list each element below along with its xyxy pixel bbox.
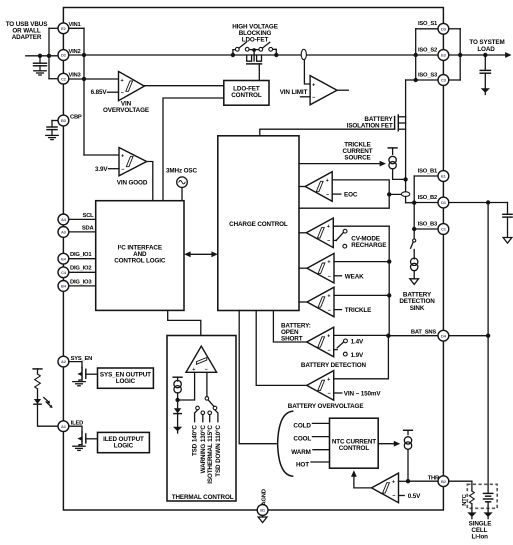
svg-text:LOGIC: LOGIC: [116, 378, 136, 385]
comparator WEAK: [307, 253, 334, 283]
block CHARGE CONTROL: [218, 136, 299, 311]
wire WEAK output: [299, 267, 307, 269]
svg-text:SOURCE: SOURCE: [344, 155, 370, 162]
wire battery overvoltage + input: [334, 336, 389, 379]
wire VIN1 stub: [69, 27, 84, 29]
svg-text:ILED: ILED: [71, 420, 83, 426]
pin ISO_B1: [438, 171, 449, 182]
wire charge control to trickle source: [299, 163, 384, 165]
capacitor input bypass: [39, 56, 41, 63]
pin AGND: [257, 505, 268, 516]
svg-text:NTC: NTC: [462, 493, 468, 505]
pin ISO_B2: [438, 197, 449, 208]
wire battery detection + input: [334, 334, 389, 336]
svg-text:ISO_B1: ISO_B1: [418, 168, 438, 174]
wire CV + input: [333, 225, 389, 227]
transistor ILED open-drain: [69, 426, 82, 432]
label 0.5V: [399, 495, 405, 497]
ground battery: [484, 512, 493, 517]
wire THR + input: [399, 480, 409, 482]
pin VIN1: [58, 23, 69, 34]
wire ISO_B bus: [413, 176, 415, 239]
wire isolation FET drain: [405, 80, 407, 203]
label TRICKLE: [334, 309, 342, 311]
LED indicator diode: [34, 399, 41, 404]
wire charge control to isolation FET gate: [260, 129, 395, 136]
wire VIN2 row left: [69, 54, 233, 56]
comparator NTC threshold 0.5V: [372, 473, 399, 503]
current source trickle: [388, 147, 397, 149]
transistor battery isolation FET: [394, 117, 396, 130]
block THERMAL CONTROL: [167, 336, 236, 502]
battery single cell: [484, 492, 493, 494]
junction EOC sense: [387, 192, 391, 196]
label WEAK: [334, 275, 342, 277]
wire VIN internal bus: [83, 28, 85, 155]
svg-text:THR: THR: [428, 475, 440, 481]
transistor SYS_EN open-drain: [69, 362, 82, 368]
svg-text:CONTROL LOGIC: CONTROL LOGIC: [114, 258, 166, 265]
wire BAT_SNS row: [388, 335, 438, 337]
junction VIN bus: [82, 53, 86, 57]
junction FET drain / trickle: [403, 177, 407, 181]
block SYS_EN OUTPUT LOGIC: [98, 368, 154, 388]
pin SDA: [69, 231, 96, 233]
svg-text:SCL: SCL: [83, 213, 95, 219]
wire ISO_S left bus: [415, 29, 417, 80]
svg-text:VIN2: VIN2: [69, 49, 81, 55]
svg-text:−: −: [328, 391, 331, 397]
block NTC CURRENT CONTROL: [330, 418, 379, 468]
wire VIN2 row right: [233, 54, 416, 56]
svg-text:−: −: [328, 274, 331, 280]
wire VIN GOOD output: [147, 162, 153, 201]
svg-text:VIN LIMIT: VIN LIMIT: [280, 89, 308, 96]
comparator CV-MODE RECHARGE: [306, 218, 333, 248]
svg-text:−: −: [392, 494, 395, 500]
wire LED to ILED pin: [38, 404, 59, 426]
svg-text:0.5V: 0.5V: [408, 493, 421, 500]
wire ISO_S1 stub left: [416, 28, 438, 30]
wire ISO_B2 stub: [414, 202, 438, 204]
wire 0.5V comparator to NTC control: [354, 473, 372, 488]
ground battery detection sink: [410, 279, 419, 285]
pin DIG_IO1: [69, 258, 96, 260]
wire EOC sense tap: [389, 193, 405, 195]
wire ISO_B2 to battery rail: [449, 202, 508, 204]
svg-text:1.9V: 1.9V: [351, 352, 364, 359]
svg-text:WARNING 130°C: WARNING 130°C: [199, 425, 207, 474]
wire THR to NTC: [449, 480, 472, 482]
wire charge control to battery detection: [273, 311, 306, 343]
pin VIN3: [58, 73, 69, 84]
svg-text:+: +: [312, 83, 315, 89]
svg-text:+: +: [326, 178, 329, 184]
switch battery detection threshold: [334, 349, 338, 351]
svg-text:+: +: [327, 293, 330, 299]
ground AGND: [262, 515, 264, 517]
comparator BATTERY OVERVOLTAGE: [307, 371, 334, 401]
ground ILED FET: [73, 445, 85, 447]
ground thermal diode: [173, 427, 182, 432]
wire I2C to thermal control: [168, 310, 201, 346]
block ILED OUTPUT LOGIC: [98, 432, 150, 452]
svg-text:COOL: COOL: [293, 436, 311, 443]
wire to system load: [449, 54, 508, 56]
ground SYS_EN FET: [73, 381, 85, 383]
capacitor CBP bypass: [52, 120, 58, 122]
svg-text:+: +: [392, 479, 395, 485]
label VIN - 150mV: [334, 392, 342, 394]
wire ISO_B3 stub: [414, 228, 438, 230]
svg-text:TSD DOWN 110°C: TSD DOWN 110°C: [214, 425, 222, 477]
svg-text:SYS_EN: SYS_EN: [71, 356, 93, 362]
svg-text:ISO_B3: ISO_B3: [418, 221, 438, 227]
wire THR row: [408, 480, 438, 482]
svg-text:3.9V: 3.9V: [95, 166, 108, 173]
svg-text:ISO_S2: ISO_S2: [418, 47, 437, 53]
svg-text:BATTERY DETECTION: BATTERY DETECTION: [301, 362, 367, 369]
wire VIN LIMIT output: [337, 89, 348, 91]
wire thermal + input: [178, 372, 195, 400]
svg-text:HOT: HOT: [296, 461, 309, 468]
svg-text:VIN1: VIN1: [69, 22, 82, 28]
svg-text:1.4V: 1.4V: [351, 339, 364, 346]
current source thermal bias: [173, 376, 182, 378]
wire EOC output: [299, 186, 305, 188]
svg-text:DIG_IO1: DIG_IO1: [70, 252, 92, 258]
svg-text:CBP: CBP: [70, 114, 82, 120]
wire battery positive rail: [487, 203, 489, 493]
svg-text:VIN − 150mV: VIN − 150mV: [344, 390, 382, 397]
svg-text:6.85V: 6.85V: [91, 89, 108, 96]
supply bar LED: [33, 368, 42, 370]
svg-text:SDA: SDA: [82, 225, 95, 231]
svg-text:COLD: COLD: [293, 423, 311, 430]
svg-text:−: −: [326, 192, 329, 198]
svg-text:−: −: [327, 239, 330, 245]
wire WEAK + input: [334, 261, 389, 263]
svg-text:BAT_SNS: BAT_SNS: [411, 329, 436, 335]
svg-text:EOC: EOC: [344, 192, 358, 199]
comparator VIN GOOD: [119, 148, 147, 176]
wire comparator + rail: [388, 226, 390, 336]
svg-text:Li-Ion: Li-Ion: [471, 534, 488, 540]
svg-text:CONTROL: CONTROL: [339, 445, 370, 452]
pin CBP: [58, 115, 69, 126]
svg-text:−: −: [328, 308, 331, 314]
dashed box single cell battery: [467, 484, 497, 508]
pin DIG_IO2: [69, 271, 96, 273]
svg-text:ISO_S1: ISO_S1: [418, 21, 438, 27]
svg-text:VIN GOOD: VIN GOOD: [117, 179, 148, 186]
pin THR: [438, 476, 449, 487]
svg-text:AGND: AGND: [262, 489, 268, 505]
pin ILED: [58, 421, 69, 432]
junction THR node: [406, 479, 410, 483]
label EOC: [332, 193, 341, 195]
switch CV-MODE RECHARGE: [333, 239, 336, 241]
contacts thermal thresholds: [196, 406, 200, 410]
svg-text:3MHz OSC: 3MHz OSC: [166, 168, 197, 175]
current source battery detection sink: [411, 258, 418, 265]
switch battery detection sink: [413, 239, 416, 242]
capacitor battery: [507, 203, 509, 214]
wire TRICKLE output: [299, 301, 307, 303]
svg-text:ISO_B2: ISO_B2: [418, 195, 437, 201]
pin SCL: [69, 218, 96, 220]
wire ISO_S2 stub left: [416, 54, 438, 56]
comparator BATTERY DETECTION: [307, 327, 334, 357]
pin ISO_S1: [438, 23, 449, 34]
wire CV output: [299, 232, 306, 234]
junction input node: [38, 54, 42, 58]
svg-text:WEAK: WEAK: [345, 273, 364, 280]
wire VIN GOOD + input: [84, 154, 119, 156]
svg-text:+: +: [121, 154, 124, 160]
svg-text:BATTERY OVERVOLTAGE: BATTERY OVERVOLTAGE: [288, 403, 364, 410]
svg-text:+: +: [327, 224, 330, 230]
comparator thermal (up): [186, 346, 217, 372]
svg-text:ISO_S3: ISO_S3: [418, 72, 438, 78]
svg-text:ISOLATION FET: ISOLATION FET: [347, 123, 393, 130]
pin DIG_IO3: [69, 285, 96, 287]
svg-text:ISOTHERMAL 115°C: ISOTHERMAL 115°C: [206, 425, 214, 484]
wire sense to ISO_B2: [406, 202, 415, 204]
svg-text:+: +: [327, 333, 330, 339]
IC boundary box: [63, 8, 443, 511]
pin SYS_EN: [58, 356, 69, 367]
wire ISO_B1 stub: [414, 175, 438, 177]
switch thermal threshold select: [206, 372, 208, 396]
svg-text:OVERVOLTAGE: OVERVOLTAGE: [103, 107, 149, 114]
svg-text:+: +: [121, 78, 124, 84]
svg-text:VIN3: VIN3: [69, 73, 82, 79]
pin ISO_S3: [438, 75, 449, 86]
wire I2C to charge control bus: [187, 253, 215, 255]
pin ISO_S2: [438, 50, 449, 61]
pin VIN2: [58, 50, 69, 61]
svg-text:+: +: [327, 260, 330, 266]
wire external VIN bus: [48, 28, 50, 78]
svg-text:WARM: WARM: [291, 449, 310, 456]
wire ISO_S3 to FET: [406, 79, 416, 81]
comparator VIN OVERVOLTAGE: [119, 71, 145, 100]
pin BAT_SNS: [438, 330, 449, 341]
resistor LED ballast: [37, 369, 39, 374]
wire LDO-FET gate: [258, 64, 260, 81]
wire charge control to NTC brace: [239, 311, 276, 444]
op-amp VIN LIMIT: [310, 76, 337, 105]
svg-text:THERMAL CONTROL: THERMAL CONTROL: [172, 494, 234, 501]
current source NTC bias: [404, 429, 413, 431]
svg-text:CONTROL: CONTROL: [231, 92, 262, 99]
svg-text:SINK: SINK: [410, 305, 425, 312]
svg-text:DIG_IO2: DIG_IO2: [70, 266, 91, 272]
wire TRICKLE + input: [334, 294, 389, 296]
brace NTC comparator bank: [278, 411, 293, 476]
pin ISO_B3: [438, 224, 449, 235]
sense element input current: [301, 49, 306, 59]
capacitor system load: [484, 55, 486, 70]
svg-text:TRICKLE: TRICKLE: [345, 307, 371, 314]
wire sense to VIN LIMIT: [304, 60, 310, 84]
svg-text:LOGIC: LOGIC: [114, 443, 134, 450]
wire ILED gate: [86, 438, 98, 440]
ground NTC: [467, 512, 476, 517]
comparator TRICKLE: [307, 287, 334, 317]
wire NTC control to current source: [378, 443, 398, 445]
wire ISO_S3 stub left: [416, 79, 438, 81]
svg-text:ADAPTER: ADAPTER: [12, 34, 42, 41]
svg-text:+: +: [327, 377, 330, 383]
svg-text:−: −: [121, 91, 124, 97]
wire charge control to battery overvoltage: [256, 311, 307, 386]
wire input to VIN2: [26, 55, 58, 57]
wire ISO_S right bus: [459, 29, 461, 80]
block LDO-FET CONTROL: [224, 81, 269, 106]
wire SYS_EN gate: [86, 373, 98, 375]
wire LDO-FET CONTROL to logic: [163, 98, 224, 201]
diode thermal sense: [174, 408, 181, 413]
block I2C INTERFACE AND CONTROL LOGIC: [96, 201, 184, 311]
wire VIN3 row: [69, 78, 119, 80]
LED emission arrows: [44, 398, 51, 407]
wire EOC + sense loop: [299, 180, 389, 208]
svg-text:TSD 140°C: TSD 140°C: [191, 425, 199, 456]
svg-text:RECHARGE: RECHARGE: [351, 242, 386, 249]
svg-text:−: −: [121, 167, 124, 173]
wire VIN OVERVOLTAGE output: [144, 85, 224, 87]
svg-text:−: −: [328, 348, 331, 354]
svg-text:CHARGE CONTROL: CHARGE CONTROL: [229, 221, 288, 228]
svg-text:LOAD: LOAD: [477, 46, 495, 53]
comparator EOC: [305, 172, 332, 202]
transistor high voltage blocking LDO-FET: [231, 53, 235, 57]
sense element charge current: [401, 192, 409, 197]
svg-text:−: −: [312, 95, 315, 101]
resistor NTC thermistor: [470, 491, 475, 504]
svg-text:DIG_IO3: DIG_IO3: [70, 279, 92, 285]
